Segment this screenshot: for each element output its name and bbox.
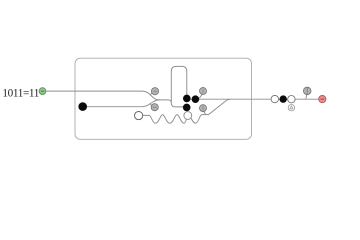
black node R (280, 95, 287, 102)
node A (151, 88, 158, 95)
black node 1 (183, 95, 191, 103)
white node on wave (184, 112, 192, 120)
output wire (190, 98, 319, 100)
node C stub (199, 94, 202, 98)
svg-text:1011=11: 1011=11 (2, 87, 39, 99)
loop wire capsule (171, 66, 187, 106)
node B (151, 104, 158, 111)
node B stub (150, 104, 153, 105)
output node red (319, 96, 326, 103)
node D (200, 105, 207, 112)
triangle node (288, 105, 294, 111)
node E stub (306, 94, 307, 99)
node C (200, 88, 207, 95)
wire black source to merge (87, 100, 160, 107)
black node 3 (183, 104, 191, 112)
white source node (wave) (135, 112, 143, 120)
input node green (39, 88, 46, 95)
black source node (78, 102, 87, 111)
wire input to merge (46, 91, 172, 103)
node A stub (150, 93, 153, 94)
black node 2 (192, 95, 200, 103)
wavy wire (143, 99, 231, 123)
enclosure box (75, 58, 252, 139)
node E (303, 87, 311, 95)
white node R1 (271, 95, 278, 102)
white node R2 (288, 96, 295, 103)
node D stub (204, 111, 206, 114)
